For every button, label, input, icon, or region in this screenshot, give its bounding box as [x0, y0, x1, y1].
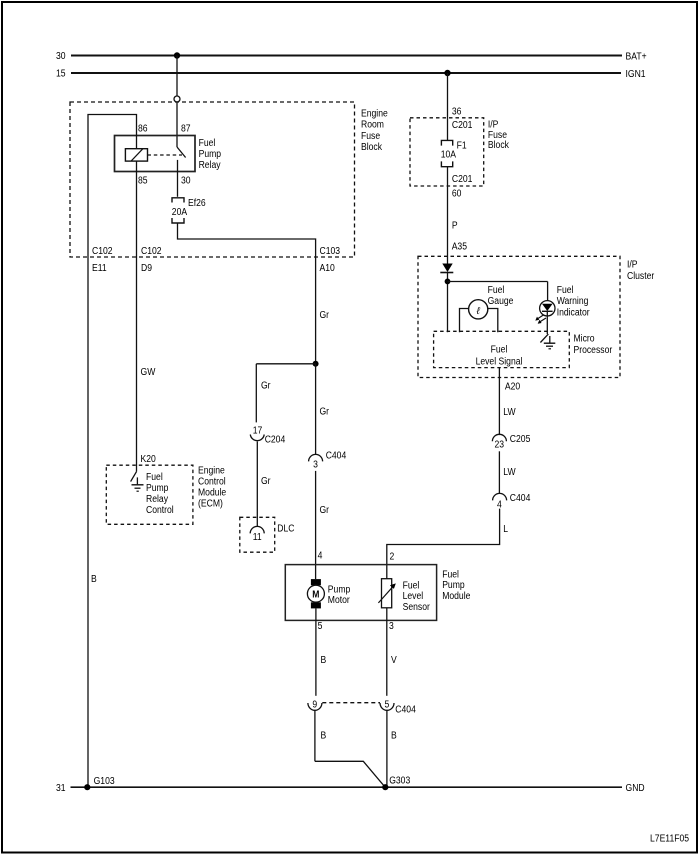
svg-text:Block: Block [361, 142, 383, 153]
svg-text:Fuel: Fuel [442, 569, 459, 580]
svg-text:86: 86 [138, 124, 148, 135]
svg-text:A10: A10 [320, 263, 336, 274]
svg-text:Pump: Pump [328, 585, 351, 596]
svg-text:B: B [321, 655, 327, 666]
svg-text:87: 87 [181, 124, 191, 135]
svg-text:G303: G303 [389, 776, 410, 787]
svg-text:Pump: Pump [146, 483, 169, 494]
svg-text:C205: C205 [510, 434, 531, 445]
svg-text:60: 60 [452, 188, 462, 199]
svg-text:Ef26: Ef26 [188, 198, 206, 209]
svg-text:GW: GW [141, 367, 156, 378]
svg-text:31: 31 [56, 783, 66, 794]
svg-text:Engine: Engine [361, 108, 388, 119]
svg-text:C404: C404 [510, 493, 531, 504]
svg-text:LW: LW [503, 407, 516, 418]
svg-text:DLC: DLC [277, 524, 294, 535]
svg-text:BAT+: BAT+ [626, 52, 647, 63]
svg-text:3: 3 [389, 621, 394, 632]
svg-text:E11: E11 [92, 263, 107, 274]
svg-text:20A: 20A [172, 207, 188, 218]
svg-text:L: L [503, 524, 508, 535]
svg-text:15: 15 [56, 69, 66, 80]
svg-text:Room: Room [361, 120, 384, 131]
svg-text:Gr: Gr [261, 476, 271, 487]
svg-text:Level: Level [403, 591, 424, 602]
svg-text:Fuel: Fuel [403, 580, 420, 591]
svg-text:Pump: Pump [442, 580, 465, 591]
svg-text:Gr: Gr [320, 406, 330, 417]
svg-text:23: 23 [495, 440, 505, 451]
svg-text:Relay: Relay [146, 494, 168, 505]
svg-text:30: 30 [181, 176, 191, 187]
svg-text:Level Signal: Level Signal [476, 357, 523, 368]
svg-text:V: V [391, 655, 397, 666]
svg-text:Control: Control [146, 505, 174, 516]
svg-text:LW: LW [503, 467, 516, 478]
svg-text:Module: Module [442, 591, 471, 602]
svg-text:C102: C102 [92, 246, 113, 257]
svg-text:A35: A35 [452, 242, 468, 253]
svg-text:F1: F1 [457, 141, 467, 152]
svg-text:C103: C103 [320, 246, 341, 257]
svg-text:85: 85 [138, 176, 148, 187]
svg-text:C201: C201 [452, 120, 473, 131]
svg-text:Control: Control [198, 477, 226, 488]
svg-text:M: M [312, 590, 319, 601]
svg-text:3: 3 [313, 459, 318, 470]
svg-text:Sensor: Sensor [403, 602, 431, 613]
svg-text:4: 4 [318, 551, 323, 562]
svg-text:5: 5 [318, 621, 323, 632]
svg-text:Block: Block [488, 140, 510, 151]
svg-text:Gauge: Gauge [488, 296, 514, 307]
svg-text:A20: A20 [505, 381, 521, 392]
svg-text:17: 17 [253, 426, 263, 437]
svg-text:36: 36 [452, 107, 462, 118]
svg-text:L7E11F05: L7E11F05 [650, 833, 689, 844]
svg-text:Pump: Pump [199, 149, 222, 160]
svg-text:10A: 10A [441, 149, 457, 160]
svg-text:D9: D9 [141, 263, 152, 274]
svg-text:Fuel: Fuel [557, 285, 574, 296]
svg-text:GND: GND [626, 783, 645, 794]
svg-text:C201: C201 [452, 174, 473, 185]
svg-text:C204: C204 [265, 434, 286, 445]
svg-text:5: 5 [385, 699, 390, 710]
svg-text:B: B [391, 730, 397, 741]
svg-text:2: 2 [390, 552, 395, 563]
svg-text:Engine: Engine [198, 466, 225, 477]
svg-text:Gr: Gr [320, 505, 330, 516]
svg-text:Warning: Warning [557, 296, 589, 307]
svg-text:B: B [321, 730, 327, 741]
svg-text:30: 30 [56, 51, 66, 62]
svg-text:C404: C404 [395, 705, 416, 716]
svg-text:11: 11 [253, 532, 262, 543]
svg-text:Relay: Relay [199, 160, 221, 171]
svg-text:K20: K20 [141, 454, 157, 465]
svg-text:G103: G103 [94, 776, 115, 787]
svg-text:Gr: Gr [261, 381, 271, 392]
svg-text:(ECM): (ECM) [198, 499, 223, 510]
svg-text:Processor: Processor [574, 345, 613, 356]
svg-text:B: B [91, 574, 97, 585]
svg-text:P: P [452, 220, 458, 231]
svg-text:9: 9 [312, 699, 317, 710]
svg-text:Fuel: Fuel [146, 472, 163, 483]
svg-text:Motor: Motor [328, 595, 351, 606]
svg-text:Fuel: Fuel [199, 138, 216, 149]
svg-text:Fuel: Fuel [491, 345, 508, 356]
svg-text:Fuse: Fuse [361, 131, 380, 142]
svg-text:Cluster: Cluster [627, 271, 655, 282]
svg-text:C102: C102 [141, 246, 162, 257]
svg-text:Module: Module [198, 488, 227, 499]
svg-text:Gr: Gr [320, 310, 330, 321]
svg-text:C404: C404 [326, 451, 347, 462]
svg-text:Fuel: Fuel [488, 285, 505, 296]
svg-text:Indicator: Indicator [557, 307, 591, 318]
svg-text:I/P: I/P [627, 260, 638, 271]
svg-text:IGN1: IGN1 [626, 69, 646, 80]
svg-text:Micro: Micro [574, 333, 595, 344]
